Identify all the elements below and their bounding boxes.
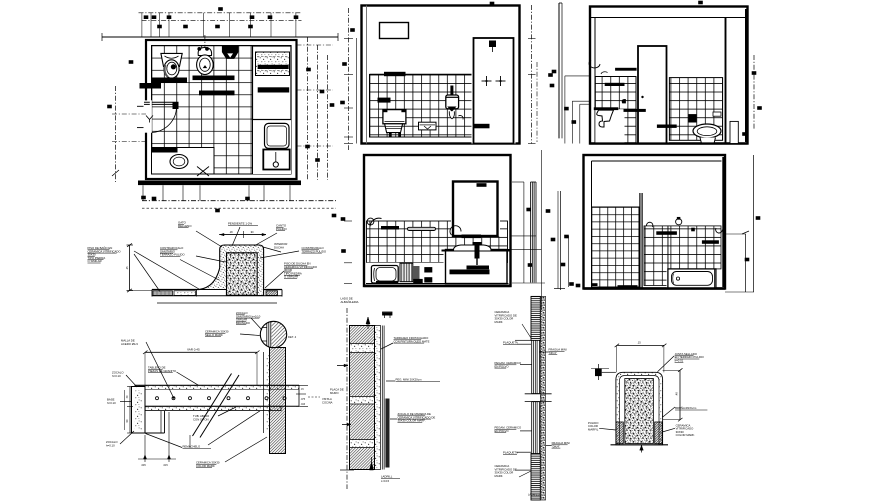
svg-text:BRUÑA Ø1X1cm: BRUÑA Ø1X1cm xyxy=(675,405,697,410)
svg-text:SELLO MARF.: SELLO MARF. xyxy=(205,333,223,337)
svg-text:VAR 0.45: VAR 0.45 xyxy=(187,348,200,352)
svg-text:PLAQUETA: PLAQUETA xyxy=(503,341,518,345)
svg-text:TERRAZO PULIDO: TERRAZO PULIDO xyxy=(302,249,327,253)
svg-text:COLOR MARF.: COLOR MARF. xyxy=(196,464,215,468)
svg-text:COLOR MARF.: COLOR MARF. xyxy=(676,433,695,437)
svg-text:h=0.01: h=0.01 xyxy=(675,359,684,363)
svg-text:REMACHELO: REMACHELO xyxy=(183,445,202,449)
svg-text:.015: .015 xyxy=(163,464,168,467)
svg-text:h=0.10: h=0.10 xyxy=(106,443,115,447)
svg-text:.15: .15 xyxy=(637,341,641,345)
svg-text:TERRAZO PULIDO: TERRAZO PULIDO xyxy=(160,253,185,257)
svg-text:MURO: MURO xyxy=(330,391,339,395)
svg-text:RELLENO: RELLENO xyxy=(178,224,192,228)
svg-text:PLAQUETA: PLAQUETA xyxy=(503,451,518,455)
svg-text:O SIMILAR: O SIMILAR xyxy=(88,259,102,263)
svg-text:"DK/4": "DK/4" xyxy=(549,351,557,355)
svg-text:"DK/4": "DK/4" xyxy=(552,444,560,448)
svg-text:O SIMILAR: O SIMILAR xyxy=(284,275,298,279)
svg-text:.90: .90 xyxy=(250,231,254,234)
svg-text:.40: .40 xyxy=(675,392,679,396)
svg-text:PEG. MINI 20X20cm: PEG. MINI 20X20cm xyxy=(396,378,423,382)
svg-text:MARF.: MARF. xyxy=(495,474,504,478)
svg-text:BRUÑADO: BRUÑADO xyxy=(236,320,251,325)
svg-text:ACERO Ø1/4: ACERO Ø1/4 xyxy=(121,342,138,346)
svg-text:.075: .075 xyxy=(301,399,306,401)
svg-text:PULIDO: PULIDO xyxy=(276,227,288,231)
svg-text:MARF.: MARF. xyxy=(495,320,504,324)
svg-text:.045: .045 xyxy=(141,464,146,467)
svg-text:PENDIENTE 1-2%: PENDIENTE 1-2% xyxy=(228,222,253,226)
svg-text:COCINA: COCINA xyxy=(322,400,333,404)
svg-text:EN POLVO: EN POLVO xyxy=(495,429,510,433)
svg-text:LADRI 1:5: LADRI 1:5 xyxy=(528,494,540,497)
svg-text:CON SIFON: CON SIFON xyxy=(193,417,209,421)
svg-text:h=0.10: h=0.10 xyxy=(112,374,121,378)
svg-text:.043: .043 xyxy=(301,404,306,406)
svg-text:L=0.15: L=0.15 xyxy=(381,479,390,483)
svg-text:.15: .15 xyxy=(126,266,129,270)
svg-text:ALBAÑILERIA: ALBAÑILERIA xyxy=(341,299,359,304)
svg-text:DUCHA: DUCHA xyxy=(274,245,284,249)
svg-text:PIEZAS DE GRANITO: PIEZAS DE GRANITO xyxy=(148,369,177,373)
svg-text:CON PINTURA OLEO MATE: CON PINTURA OLEO MATE xyxy=(394,339,430,343)
svg-text:h=0.10: h=0.10 xyxy=(107,401,116,405)
svg-text:LADRILL: LADRILL xyxy=(381,475,393,479)
svg-text:30X30 COLOR MARF.: 30X30 COLOR MARF. xyxy=(398,419,426,423)
svg-text:DET. 4: DET. 4 xyxy=(288,335,297,339)
svg-text:EN POLVO: EN POLVO xyxy=(495,364,510,368)
svg-text:.18: .18 xyxy=(229,231,233,234)
svg-text:MARFIL: MARFIL xyxy=(588,427,599,431)
